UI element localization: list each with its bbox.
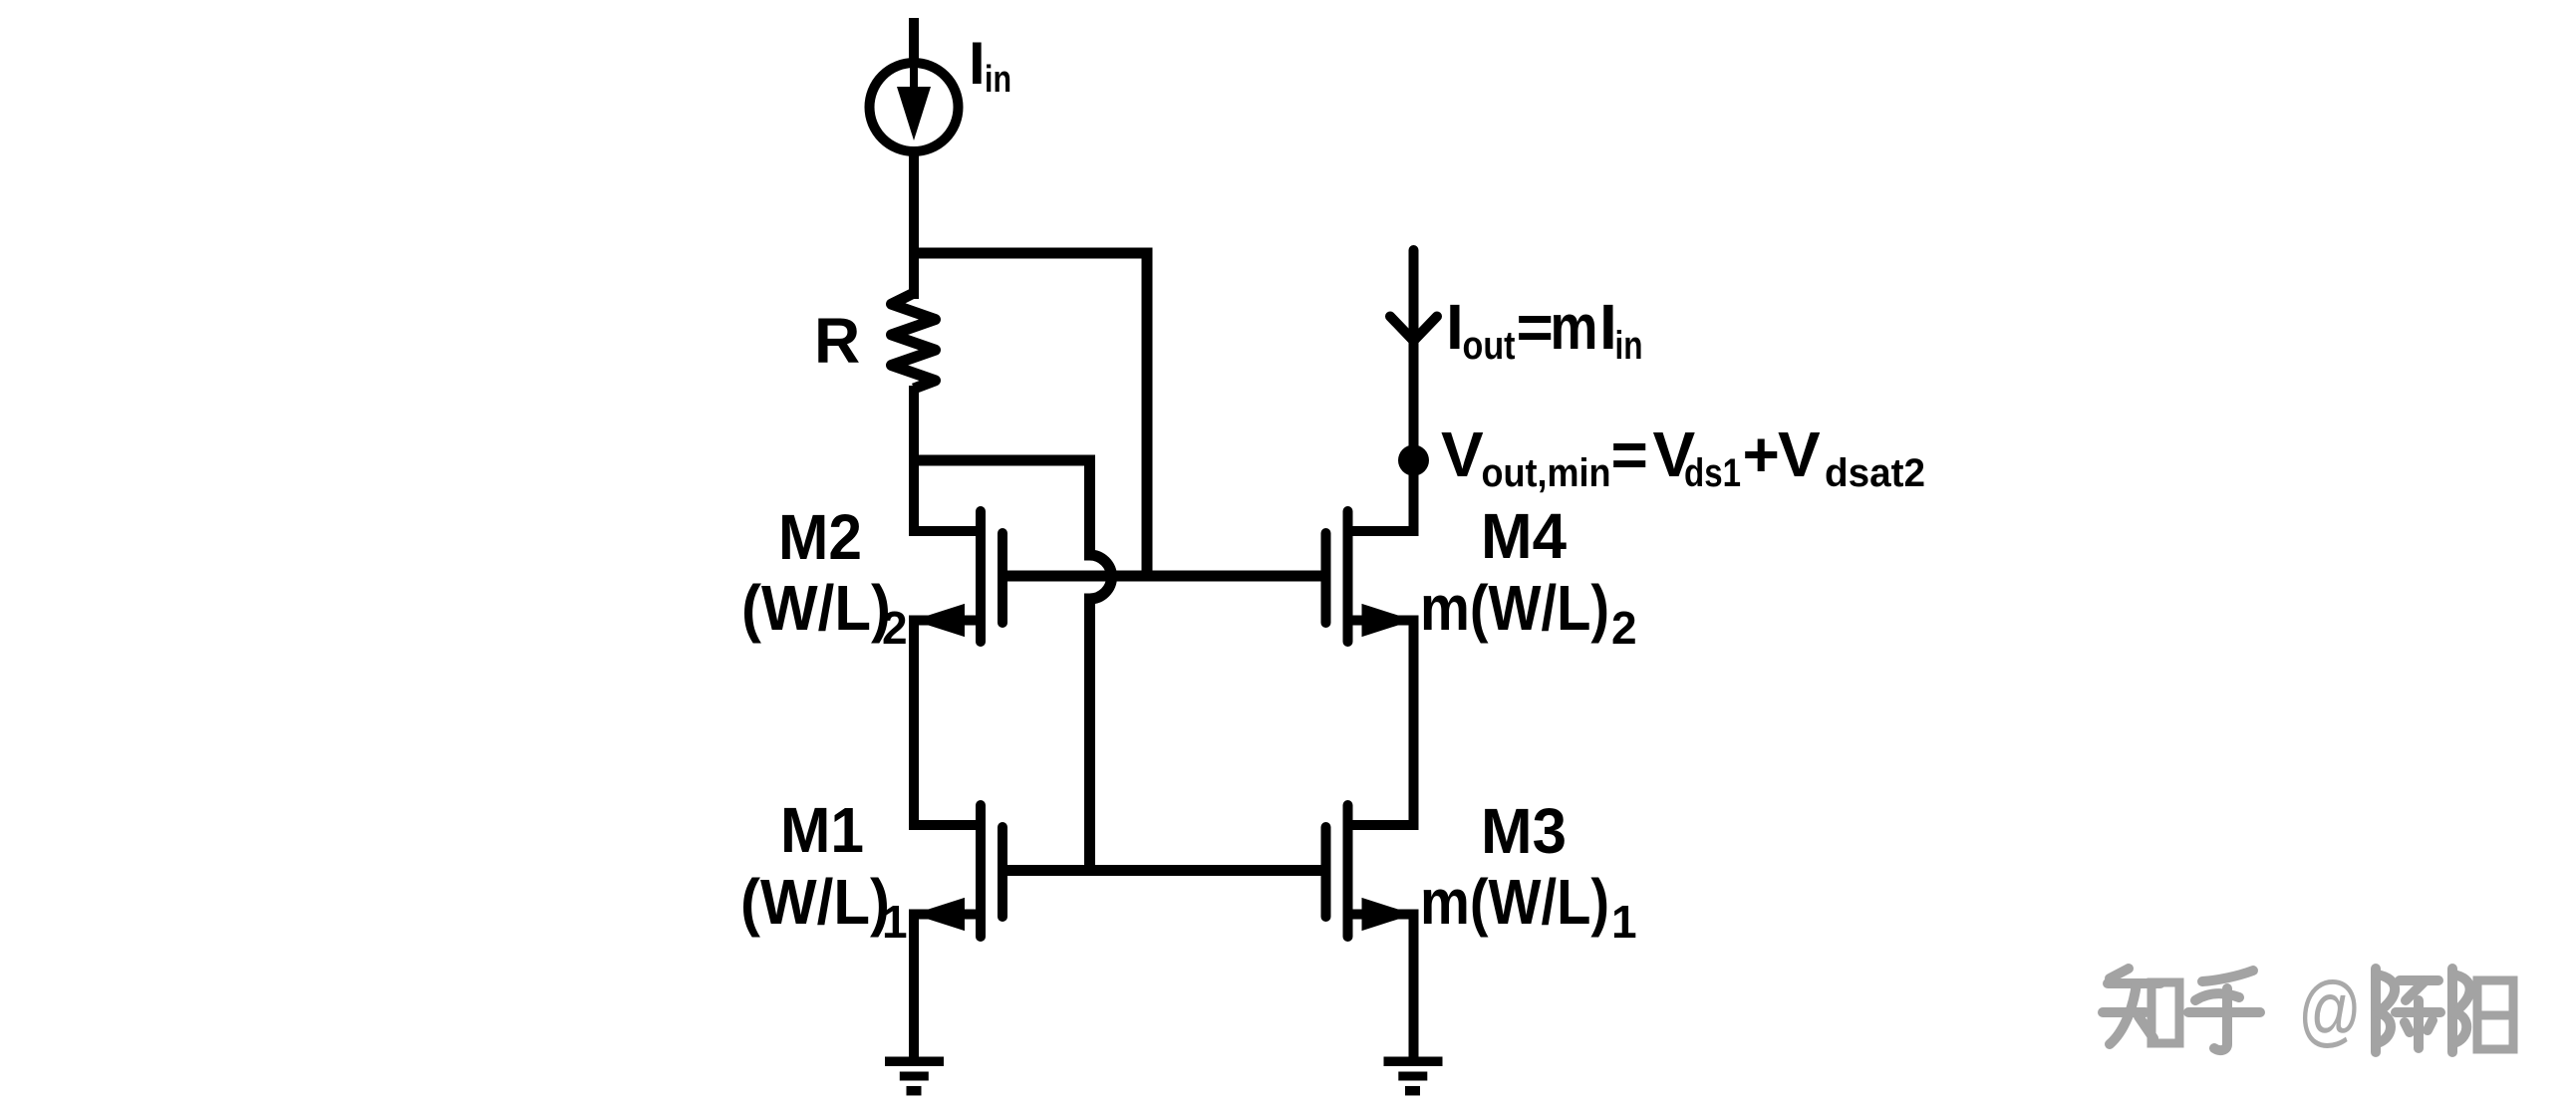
svg-text:(W/L): (W/L) <box>741 572 891 644</box>
svg-text:2: 2 <box>882 602 908 654</box>
svg-text:V: V <box>1441 418 1484 490</box>
svg-text:dsat2: dsat2 <box>1825 451 1925 495</box>
svg-text:M1: M1 <box>780 794 864 866</box>
svg-text:1: 1 <box>882 896 908 948</box>
svg-text:R: R <box>814 305 860 377</box>
svg-text:m: m <box>1551 291 1598 363</box>
svg-text:in: in <box>985 59 1011 101</box>
svg-text:M3: M3 <box>1481 795 1567 867</box>
svg-text:m(W/L): m(W/L) <box>1420 866 1609 938</box>
svg-text:M4: M4 <box>1481 500 1567 572</box>
svg-text:M2: M2 <box>778 501 862 573</box>
svg-text:(W/L): (W/L) <box>740 866 890 938</box>
svg-text:+: + <box>1743 418 1780 490</box>
svg-text:V: V <box>1778 418 1821 490</box>
svg-text:2: 2 <box>1611 602 1637 654</box>
svg-text:out: out <box>1463 324 1516 368</box>
svg-text:m(W/L): m(W/L) <box>1420 572 1609 644</box>
svg-text:out,min: out,min <box>1482 451 1611 495</box>
svg-text:ds1: ds1 <box>1684 451 1741 495</box>
svg-text:@: @ <box>2298 966 2362 1054</box>
svg-text:1: 1 <box>1611 896 1637 948</box>
svg-text:I: I <box>1446 291 1464 363</box>
svg-text:in: in <box>1615 324 1643 368</box>
svg-text:=: = <box>1611 418 1648 490</box>
svg-text:I: I <box>969 30 986 97</box>
svg-text:=: = <box>1517 291 1554 363</box>
